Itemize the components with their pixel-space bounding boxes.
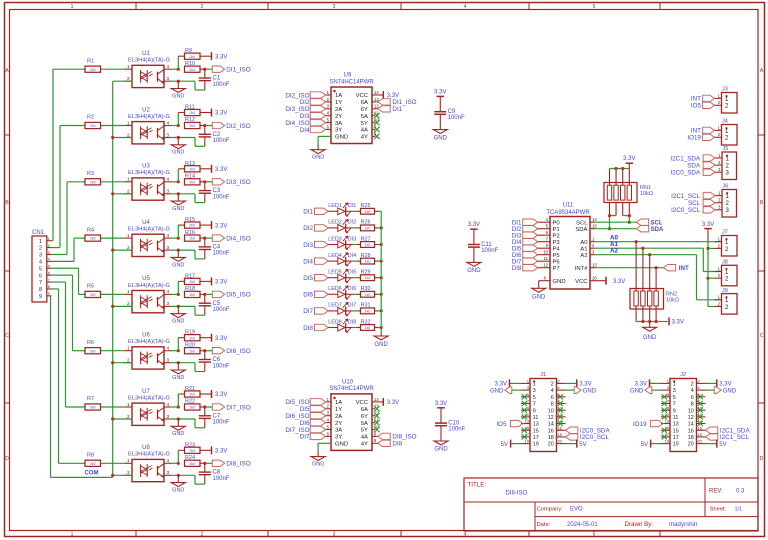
- svg-text:4: 4: [167, 402, 170, 407]
- flag I2C0_SCL J1 pin18: [566, 434, 610, 442]
- svg-text:1k0: 1k0: [365, 326, 371, 330]
- svg-text:GND: GND: [723, 388, 737, 394]
- svg-text:TCA9534APWR: TCA9534APWR: [546, 210, 590, 216]
- flag DI4 LED input: [303, 258, 328, 266]
- svg-text:3.3V: 3.3V: [434, 89, 446, 95]
- svg-text:DI8-ISO: DI8-ISO: [506, 490, 528, 496]
- ground GND U2: [171, 138, 185, 156]
- svg-text:2k0: 2k0: [189, 167, 195, 171]
- svg-text:U2: U2: [142, 107, 150, 113]
- svg-text:DI1: DI1: [348, 203, 356, 209]
- svg-text:7: 7: [673, 402, 676, 408]
- no-connect X J1 pin12: [558, 414, 563, 419]
- svg-text:U4: U4: [142, 220, 150, 226]
- svg-text:4: 4: [167, 120, 170, 125]
- resistor R10 series: [185, 61, 201, 72]
- svg-text:J1: J1: [540, 372, 546, 378]
- flag DI5 LED input: [303, 275, 328, 283]
- svg-text:3.3V: 3.3V: [719, 382, 731, 388]
- svg-text:D: D: [5, 456, 9, 462]
- svg-text:3: 3: [533, 388, 536, 394]
- svg-text:DI7_ISO: DI7_ISO: [226, 404, 250, 411]
- junction LED GND bus row 3: [380, 243, 383, 246]
- wire R5 to U5 pin1: [101, 293, 124, 295]
- svg-text:1A: 1A: [335, 93, 342, 99]
- svg-text:1: 1: [71, 532, 74, 538]
- flag DI3 U11 P2: [512, 230, 560, 239]
- resistor R27: [361, 236, 375, 247]
- svg-text:4: 4: [167, 458, 170, 463]
- no-connect X U9 pin9: [374, 127, 380, 133]
- svg-text:GND: GND: [490, 388, 504, 394]
- svg-text:6A: 6A: [361, 100, 368, 106]
- svg-text:14: 14: [592, 217, 597, 222]
- svg-text:DI8: DI8: [512, 265, 522, 272]
- wire R32 to GND bus: [375, 327, 382, 329]
- svg-text:COM: COM: [85, 471, 99, 477]
- svg-text:1: 1: [127, 289, 130, 294]
- junction COM row 4: [111, 249, 114, 252]
- no-connect X J1 pin11: [522, 414, 527, 419]
- node U7 pin4 junction: [171, 394, 185, 409]
- capacitor C11 100nF: [468, 229, 499, 262]
- capacitor C5 100nF: [199, 294, 230, 315]
- svg-text:3.3V: 3.3V: [579, 382, 591, 388]
- flag DI2 LED input: [303, 225, 328, 233]
- no-connect X U10 pin11: [374, 420, 380, 426]
- svg-text:16: 16: [558, 426, 562, 430]
- svg-text:EL3H4(A)(TA)-G: EL3H4(A)(TA)-G: [128, 227, 170, 233]
- svg-text:4A: 4A: [361, 435, 368, 441]
- svg-text:1: 1: [527, 380, 529, 384]
- svg-text:5: 5: [527, 393, 529, 397]
- svg-text:CN1: CN1: [32, 230, 45, 236]
- svg-text:C9: C9: [448, 109, 456, 115]
- svg-text:16: 16: [592, 276, 597, 281]
- svg-text:2Y: 2Y: [335, 421, 342, 427]
- svg-text:2: 2: [127, 414, 130, 419]
- svg-text:100nF: 100nF: [213, 138, 230, 144]
- svg-text:Sheet:: Sheet:: [710, 507, 727, 513]
- ground GND U1: [171, 81, 185, 99]
- svg-text:P1: P1: [553, 227, 560, 233]
- no-connect X U10 pin10: [374, 427, 380, 433]
- svg-text:14: 14: [374, 397, 379, 402]
- no-connect X J1 pin14: [558, 421, 563, 426]
- resistor R1: [85, 58, 101, 72]
- wire DI2 to LED2: [328, 227, 338, 229]
- junction COM row 2: [111, 136, 114, 139]
- svg-text:DI4: DI4: [303, 258, 313, 265]
- flag DI5 U11 P4: [512, 243, 561, 252]
- svg-text:C10: C10: [448, 420, 460, 426]
- flag IO19 J4 pin2: [687, 134, 714, 142]
- svg-text:11: 11: [673, 415, 679, 421]
- connector J2 2x10 header: [661, 372, 706, 452]
- flag DI4 U9 pin6: [300, 126, 326, 134]
- flag I2C1_SDA J5: [670, 155, 715, 163]
- svg-text:2k0: 2k0: [189, 280, 195, 284]
- svg-text:2: 2: [127, 470, 130, 475]
- svg-text:C6: C6: [213, 357, 221, 363]
- net label A1: [610, 241, 618, 248]
- opto-coupler U6 EL3H4(A)(TA)-G: [124, 333, 171, 370]
- junction LED GND bus row 7: [380, 309, 383, 312]
- wire R24 to flag DI8_ISO: [200, 462, 212, 465]
- resistor R24 series: [185, 455, 201, 466]
- resistor R25: [361, 203, 375, 214]
- io-expander U11 TCA9534APWR: [546, 203, 590, 289]
- svg-text:1/1: 1/1: [735, 507, 743, 513]
- svg-text:19: 19: [665, 440, 669, 444]
- wire CN1 pin2 to row 2: [52, 126, 86, 248]
- wire C3 return to U3 pin3: [171, 192, 205, 202]
- svg-text:VCC: VCC: [356, 400, 369, 406]
- svg-text:6Y: 6Y: [361, 414, 368, 420]
- svg-text:9: 9: [39, 294, 42, 300]
- svg-text:13: 13: [592, 263, 597, 268]
- resistor R3: [85, 171, 101, 185]
- connector J1 2x10 header: [521, 372, 566, 452]
- svg-text:1Y: 1Y: [335, 407, 342, 413]
- resistor R8: [85, 453, 101, 467]
- svg-text:5V: 5V: [641, 442, 648, 448]
- flag DI8 LED input: [303, 324, 328, 332]
- flag I2C0_SDA J5: [670, 169, 715, 177]
- svg-text:3: 3: [527, 386, 529, 390]
- svg-text:3.3V: 3.3V: [623, 156, 635, 162]
- net label A0: [610, 235, 618, 242]
- resistor R17 pullup: [185, 273, 201, 284]
- svg-text:18: 18: [698, 433, 702, 437]
- svg-text:13: 13: [533, 422, 539, 428]
- svg-text:2k0: 2k0: [90, 124, 96, 128]
- power 3.3V C11: [468, 222, 480, 229]
- wire U5 pin2 to COM bus: [113, 305, 132, 307]
- wire R6 to U6 pin1: [101, 350, 124, 352]
- svg-text:GND: GND: [630, 388, 644, 394]
- svg-text:A0: A0: [580, 240, 588, 246]
- svg-text:GND: GND: [553, 279, 566, 285]
- svg-text:5V: 5V: [501, 442, 508, 448]
- svg-text:100nF: 100nF: [481, 248, 498, 254]
- svg-text:9: 9: [527, 406, 529, 410]
- svg-text:GND: GND: [172, 375, 184, 381]
- svg-text:20: 20: [548, 442, 554, 448]
- no-connect X J2 pin17: [662, 434, 667, 439]
- wire C6 return to U6 pin3: [171, 361, 205, 371]
- flag I2C0_SCL J6: [671, 207, 715, 215]
- border column ticks and numbers: [71, 3, 660, 538]
- resistor R18 series: [185, 286, 201, 297]
- svg-text:5Y: 5Y: [361, 121, 368, 127]
- svg-text:EL3H4(A)(TA)-G: EL3H4(A)(TA)-G: [128, 452, 170, 458]
- svg-text:3: 3: [167, 189, 170, 194]
- svg-text:20: 20: [688, 442, 694, 448]
- svg-text:3: 3: [333, 532, 336, 538]
- opto-coupler U3 EL3H4(A)(TA)-G: [124, 164, 171, 201]
- no-connect X J2 pin5: [662, 394, 667, 399]
- junction LED GND bus row 8: [380, 326, 383, 329]
- svg-text:1: 1: [127, 64, 130, 69]
- svg-text:I2C1_SDA: I2C1_SDA: [670, 155, 701, 162]
- svg-text:2: 2: [127, 76, 130, 81]
- svg-text:2k0: 2k0: [90, 462, 96, 466]
- svg-text:C: C: [5, 333, 9, 339]
- LED LED2: [328, 219, 356, 233]
- wire R29 to GND bus: [375, 277, 382, 279]
- no-connect X U9 pin11: [374, 113, 380, 119]
- svg-text:5A: 5A: [361, 114, 368, 120]
- flag DI8_ISO U10 pin9: [378, 433, 417, 441]
- ground flag GND J1 pins3-4: [490, 387, 597, 395]
- svg-text:DI7: DI7: [348, 303, 356, 309]
- svg-text:DI4: DI4: [348, 253, 356, 259]
- flag DI6 LED input: [303, 291, 328, 299]
- wire DI3 to LED3: [328, 244, 338, 246]
- svg-text:4: 4: [39, 259, 42, 265]
- svg-text:C2: C2: [213, 132, 221, 138]
- svg-text:GND: GND: [434, 135, 448, 141]
- node U8 pin4 junction: [171, 450, 185, 465]
- power 3.3V R9: [200, 52, 227, 60]
- no-connect X J1 pin6: [558, 394, 563, 399]
- svg-text:3: 3: [167, 358, 170, 363]
- svg-text:2: 2: [127, 189, 130, 194]
- ground GND U11: [532, 281, 550, 301]
- svg-text:3.3V: 3.3V: [215, 54, 227, 60]
- svg-text:15: 15: [533, 428, 539, 434]
- svg-text:4: 4: [167, 177, 170, 182]
- svg-text:C8: C8: [213, 470, 221, 476]
- power 3.3V J1 pins1-2: [495, 379, 592, 387]
- resistor R12 series: [185, 117, 201, 128]
- resistor R13 pullup: [185, 161, 201, 172]
- svg-text:IO5: IO5: [496, 421, 507, 428]
- flag DI1 U11 P0: [512, 217, 561, 226]
- wire R25 to GND bus: [375, 210, 382, 212]
- svg-text:11: 11: [544, 256, 549, 261]
- no-connect X U9 pin10: [374, 120, 380, 126]
- svg-text:DI7: DI7: [303, 308, 313, 315]
- svg-text:9: 9: [667, 406, 669, 410]
- no-connect X J1 pin9: [522, 408, 527, 413]
- wire RN1 top bus to 3.3V: [610, 156, 636, 185]
- svg-text:1k0: 1k0: [365, 243, 371, 247]
- resistor R29: [361, 270, 375, 281]
- wire R8 to U8 pin1: [101, 462, 124, 464]
- svg-text:14: 14: [688, 422, 694, 428]
- svg-text:5: 5: [593, 4, 596, 10]
- svg-text:3.3V: 3.3V: [215, 336, 227, 342]
- no-connect X U9 pin8: [374, 134, 380, 140]
- svg-text:3.3V: 3.3V: [468, 222, 480, 228]
- svg-text:SDA: SDA: [575, 227, 587, 233]
- svg-text:2: 2: [698, 380, 700, 384]
- svg-text:R7: R7: [87, 396, 94, 402]
- flag INT: [663, 265, 689, 273]
- wire LED5 to R29: [346, 277, 361, 279]
- svg-text:2: 2: [48, 244, 50, 248]
- no-connect X J1 pin5: [522, 394, 527, 399]
- connector J6: [715, 184, 737, 217]
- capacitor C4 100nF: [199, 238, 230, 259]
- svg-text:2k0: 2k0: [189, 55, 195, 59]
- flag I2C1_SDA J2 pin16: [706, 427, 751, 435]
- flag DI1_ISO U9 pin13: [378, 99, 417, 107]
- flag IO5 J1 pin13: [496, 420, 523, 428]
- node U3 pin4 junction: [171, 169, 185, 184]
- svg-text:2: 2: [127, 358, 130, 363]
- flag DI1_ISO: [212, 66, 250, 74]
- svg-text:2A: 2A: [335, 107, 342, 113]
- svg-text:DI2: DI2: [303, 225, 313, 232]
- flag DI6 U11 P5: [512, 250, 561, 259]
- resistor R14 series: [185, 174, 201, 185]
- svg-text:J5: J5: [723, 146, 729, 152]
- svg-text:5: 5: [593, 532, 596, 538]
- svg-text:J8: J8: [722, 260, 728, 266]
- wire LED3 to R27: [346, 244, 361, 246]
- svg-text:10kΩ: 10kΩ: [640, 191, 653, 197]
- wire R12 to flag DI2_ISO: [200, 124, 212, 127]
- svg-text:10kΩ: 10kΩ: [666, 298, 679, 304]
- company text EVO: [537, 507, 584, 513]
- resistor network RN2 10k: [630, 289, 679, 310]
- junction LED GND bus row 4: [380, 260, 383, 263]
- svg-text:3Y: 3Y: [335, 128, 342, 134]
- svg-text:2k0: 2k0: [189, 124, 195, 128]
- node U6 pin4 junction: [171, 338, 185, 353]
- svg-text:13: 13: [525, 420, 529, 424]
- svg-text:2: 2: [691, 382, 694, 388]
- resistor R7: [85, 396, 101, 410]
- pin A0 U11: [580, 237, 595, 246]
- svg-text:REV:: REV:: [709, 488, 723, 494]
- svg-text:0.3: 0.3: [736, 489, 745, 495]
- flag DI5 U10 pin2: [300, 406, 326, 414]
- junction COM row 6: [111, 361, 114, 364]
- resistor R22 series: [185, 399, 201, 410]
- ground GND C10: [434, 441, 448, 453]
- svg-text:LED8: LED8: [328, 319, 342, 325]
- power 3.3V R17: [200, 277, 227, 285]
- svg-text:20: 20: [558, 440, 562, 444]
- svg-text:SCL: SCL: [576, 220, 588, 226]
- svg-text:4: 4: [691, 388, 694, 394]
- power 3.3V U11 VCC: [595, 277, 625, 285]
- svg-text:DI3_ISO: DI3_ISO: [226, 179, 250, 186]
- svg-text:P2: P2: [553, 233, 560, 239]
- svg-text:18: 18: [688, 435, 694, 441]
- svg-text:1: 1: [127, 233, 130, 238]
- ground GND RN2: [643, 322, 657, 342]
- capacitor C2 100nF: [199, 126, 230, 147]
- svg-text:SCL: SCL: [651, 221, 663, 227]
- svg-text:P5: P5: [553, 253, 561, 259]
- svg-text:2k0: 2k0: [189, 180, 195, 184]
- svg-text:1k0: 1k0: [365, 226, 371, 230]
- svg-text:2k0: 2k0: [90, 349, 96, 353]
- svg-text:C5: C5: [213, 301, 221, 307]
- ground GND C9: [433, 130, 447, 142]
- svg-text:2k0: 2k0: [189, 237, 195, 241]
- svg-text:2k0: 2k0: [189, 68, 195, 72]
- flag I2C1_SCL J2 pin18: [706, 434, 750, 442]
- svg-text:4: 4: [167, 346, 170, 351]
- svg-text:5: 5: [48, 265, 50, 269]
- svg-text:U11: U11: [563, 203, 574, 209]
- svg-text:6: 6: [691, 395, 694, 401]
- power 5V J2 pins19-20: [641, 440, 727, 448]
- svg-text:U3: U3: [142, 164, 150, 170]
- capacitor C3 100nF: [199, 182, 230, 203]
- flag DI7 U11 P6: [512, 256, 561, 265]
- svg-text:18: 18: [548, 435, 554, 441]
- flag IO19 J2 pin13: [633, 420, 663, 428]
- svg-text:9: 9: [533, 408, 536, 414]
- svg-text:J3: J3: [722, 87, 728, 93]
- wire U6 pin2 to COM bus: [113, 362, 132, 364]
- svg-text:1k0: 1k0: [365, 276, 371, 280]
- svg-text:3: 3: [673, 388, 676, 394]
- wire CN1 pin1 to row 1: [52, 69, 86, 241]
- svg-text:1k0: 1k0: [365, 309, 371, 313]
- svg-text:C4: C4: [213, 245, 221, 251]
- svg-text:P3: P3: [553, 240, 561, 246]
- wire R26 to GND bus: [375, 227, 382, 229]
- wire LED6 to R30: [346, 293, 361, 295]
- wire DI8 to LED8: [328, 327, 338, 329]
- svg-text:7: 7: [48, 278, 50, 282]
- svg-text:J4: J4: [722, 119, 728, 125]
- svg-text:15: 15: [592, 224, 597, 229]
- opto-coupler U1 EL3H4(A)(TA)-G: [124, 51, 171, 88]
- svg-text:Date:: Date:: [537, 522, 551, 528]
- svg-text:DI6: DI6: [303, 292, 313, 299]
- svg-text:GND: GND: [335, 135, 348, 141]
- svg-text:GND: GND: [172, 319, 184, 325]
- svg-text:100nF: 100nF: [213, 420, 230, 426]
- svg-text:2Y: 2Y: [335, 114, 342, 120]
- node U1 pin4 junction: [171, 56, 185, 71]
- svg-text:DI5: DI5: [303, 275, 313, 282]
- svg-text:R1: R1: [87, 58, 94, 64]
- power 3.3V R11: [200, 109, 227, 117]
- svg-text:2A: 2A: [335, 414, 342, 420]
- wire RN2 bottom bus to 3.3V: [636, 306, 684, 326]
- svg-text:11: 11: [533, 415, 539, 421]
- date and drawn-by text: [537, 521, 698, 528]
- flag DI7 U10 pin6: [300, 433, 326, 441]
- resistor R28: [361, 253, 375, 264]
- node U4 pin4 junction: [171, 225, 185, 240]
- wire DI7 to LED7: [328, 310, 338, 312]
- flag DI5_ISO: [212, 291, 250, 299]
- svg-text:DI8: DI8: [348, 319, 356, 325]
- no-connect X U10 pin13: [374, 406, 380, 412]
- svg-text:1: 1: [667, 380, 669, 384]
- wire R14 to flag DI3_ISO: [200, 180, 212, 183]
- svg-text:2k0: 2k0: [90, 237, 96, 241]
- resistor R19 pullup: [185, 330, 201, 341]
- svg-text:12: 12: [548, 415, 554, 421]
- svg-text:DI6_ISO: DI6_ISO: [226, 348, 250, 355]
- svg-text:4Y: 4Y: [361, 135, 368, 141]
- svg-text:DI1: DI1: [303, 209, 313, 216]
- svg-text:3: 3: [167, 414, 170, 419]
- power 3.3V C10: [435, 401, 447, 408]
